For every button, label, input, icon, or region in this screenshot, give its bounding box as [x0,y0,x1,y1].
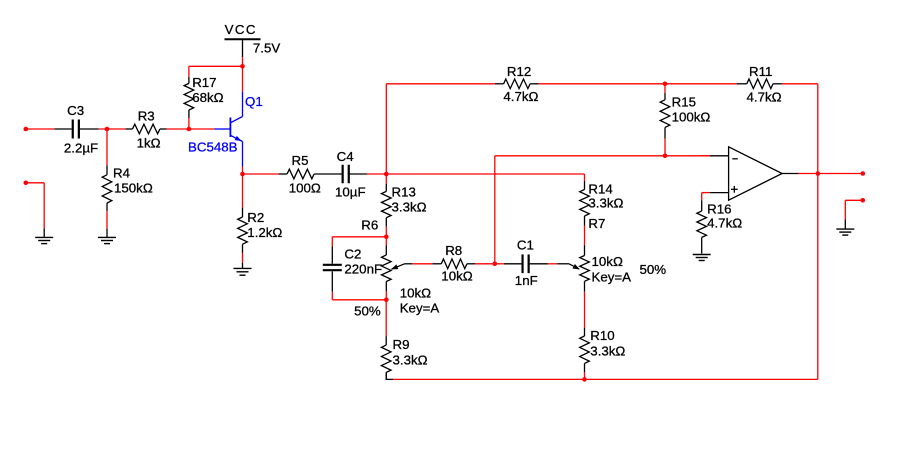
svg-text:4.7kΩ: 4.7kΩ [747,90,782,105]
svg-text:10kΩ: 10kΩ [441,268,472,283]
svg-text:100kΩ: 100kΩ [672,110,711,125]
svg-text:Q1: Q1 [245,94,263,109]
svg-text:R8: R8 [445,243,462,258]
svg-text:1.2kΩ: 1.2kΩ [247,225,282,240]
svg-text:R4: R4 [113,166,130,181]
svg-text:50%: 50% [354,304,381,319]
svg-text:100Ω: 100Ω [289,180,321,195]
svg-text:R14: R14 [588,182,612,197]
svg-text:R3: R3 [138,109,155,124]
svg-text:3.3kΩ: 3.3kΩ [392,200,427,215]
svg-text:7.5V: 7.5V [253,41,280,56]
svg-text:4.7kΩ: 4.7kΩ [707,216,742,231]
svg-text:1nF: 1nF [515,273,538,288]
svg-text:VCC: VCC [225,22,257,37]
svg-text:C4: C4 [337,149,354,164]
svg-text:R12: R12 [507,64,531,79]
svg-text:C3: C3 [67,103,84,118]
svg-text:Key=A: Key=A [592,270,632,285]
svg-text:150kΩ: 150kΩ [114,181,153,196]
svg-text:BC548B: BC548B [188,140,238,155]
svg-text:R7: R7 [588,216,605,231]
svg-text:4.7kΩ: 4.7kΩ [503,89,538,104]
svg-text:3.3kΩ: 3.3kΩ [588,196,623,211]
svg-text:10kΩ: 10kΩ [400,286,431,301]
svg-text:C1: C1 [517,238,534,253]
svg-text:R5: R5 [292,153,309,168]
svg-text:50%: 50% [640,262,667,277]
svg-text:68kΩ: 68kΩ [192,90,223,105]
svg-text:R13: R13 [392,185,416,200]
svg-text:10µF: 10µF [335,184,366,199]
svg-text:R15: R15 [672,95,696,110]
svg-text:R11: R11 [749,64,772,79]
svg-text:R16: R16 [707,202,731,217]
svg-text:2.2µF: 2.2µF [64,140,98,155]
svg-text:R10: R10 [590,328,614,343]
svg-text:220nF: 220nF [344,262,382,277]
svg-text:10kΩ: 10kΩ [592,254,623,269]
svg-text:R6: R6 [361,218,378,233]
svg-text:1kΩ: 1kΩ [137,136,161,151]
svg-text:3.3kΩ: 3.3kΩ [393,352,428,367]
svg-text:R9: R9 [393,337,410,352]
svg-text:R17: R17 [192,75,216,90]
svg-text:Key=A: Key=A [400,301,440,316]
svg-text:C2: C2 [344,247,361,262]
svg-text:R2: R2 [247,210,264,225]
svg-text:3.3kΩ: 3.3kΩ [590,343,625,358]
